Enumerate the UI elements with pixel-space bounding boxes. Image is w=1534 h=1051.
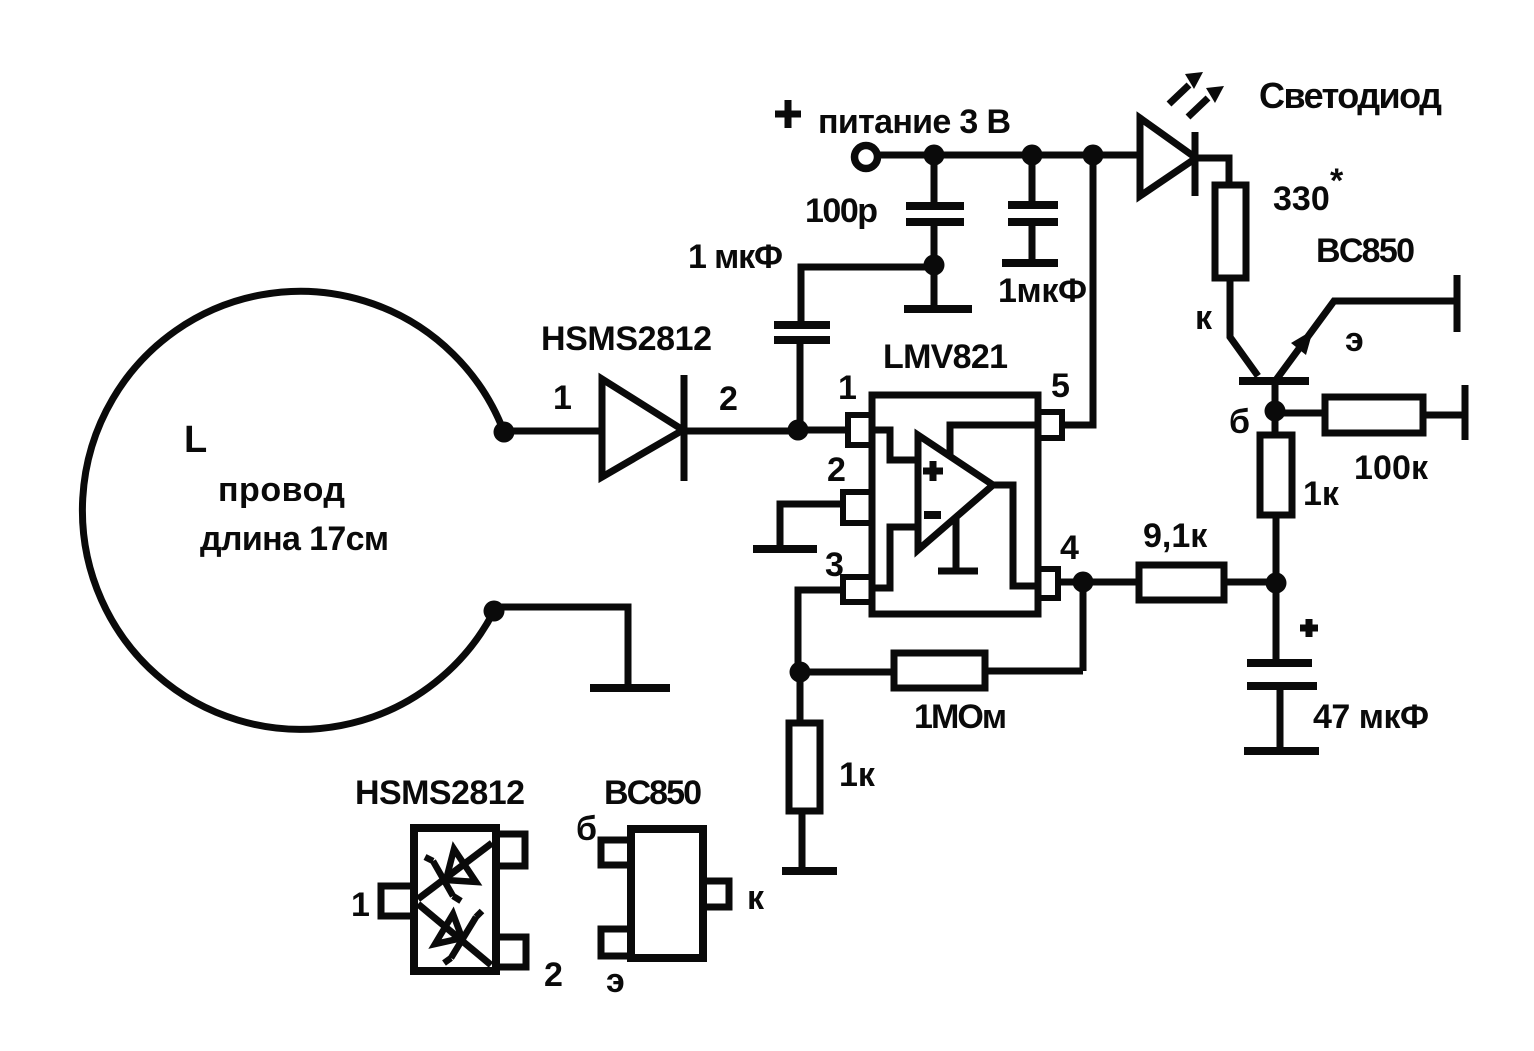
svg-text:1МОм: 1МОм xyxy=(914,698,1007,736)
pin top-right U2 xyxy=(496,834,525,866)
svg-text:к: к xyxy=(747,879,765,917)
LED D2 xyxy=(1140,118,1196,196)
svg-text:330: 330 xyxy=(1273,180,1330,218)
wire R2 to terminal xyxy=(1423,412,1465,419)
wire R6 to ground xyxy=(799,811,806,868)
wire loop bottom to ground xyxy=(494,607,628,684)
svg-text:1к: 1к xyxy=(1303,475,1340,513)
node F feedback xyxy=(790,662,811,683)
minus input mark xyxy=(924,511,941,519)
svg-text:1: 1 xyxy=(838,369,857,407)
node C1 bottom xyxy=(924,255,945,276)
wire power rail xyxy=(878,152,1140,159)
diode D1 HSMS2812 xyxy=(602,375,684,481)
pin 1 box xyxy=(848,415,872,445)
ground pin2 xyxy=(753,545,817,553)
wire base to R2 xyxy=(1275,410,1325,417)
LED arrows xyxy=(1169,72,1224,117)
resistor R1 330 xyxy=(1215,185,1246,278)
node B detector output xyxy=(788,420,809,441)
wire D1 to node B xyxy=(684,428,798,435)
ground C1 xyxy=(904,305,972,313)
svg-text:3: 3 xyxy=(825,546,844,584)
transistor Q1 BC850 xyxy=(1239,301,1455,411)
ground R6 xyxy=(782,867,837,875)
wire R5 right xyxy=(985,668,1083,675)
ground C3 xyxy=(1002,259,1058,267)
terminal bar R2 xyxy=(1462,385,1469,440)
svg-text:1мкФ: 1мкФ xyxy=(998,272,1087,310)
wire rail to pin 5 xyxy=(1062,155,1093,425)
diode D3 inside U2 xyxy=(418,843,492,901)
node E output xyxy=(1073,572,1094,593)
capacitor C3 1uF xyxy=(1008,155,1058,260)
wire base to R3 xyxy=(1272,411,1279,435)
wire pin3 internal xyxy=(872,527,918,588)
svg-text:2: 2 xyxy=(719,380,738,418)
ground C4 xyxy=(1244,747,1319,755)
ground internal xyxy=(938,517,978,571)
pin 5 box xyxy=(1038,412,1062,438)
svg-text:HSMS2812: HSMS2812 xyxy=(355,774,525,812)
wire node E down to feedback xyxy=(1080,582,1087,671)
svg-text:б: б xyxy=(1229,403,1250,441)
plus input mark xyxy=(923,461,943,481)
pin c Q2 xyxy=(703,881,729,907)
wire pin4 to R4 xyxy=(1058,579,1139,586)
svg-text:100p: 100p xyxy=(805,192,878,230)
op-amp U1 LMV821 body xyxy=(872,395,1038,614)
svg-text:100к: 100к xyxy=(1354,449,1429,487)
svg-text:BC850: BC850 xyxy=(604,774,702,812)
svg-text:1к: 1к xyxy=(839,756,876,794)
node A loop top output xyxy=(494,422,515,443)
wire R1 to Q1 collector xyxy=(1230,278,1258,376)
svg-text:5: 5 xyxy=(1051,367,1070,405)
resistor R4 9.1k xyxy=(1139,565,1224,600)
svg-text:47 мкФ: 47 мкФ xyxy=(1313,698,1429,736)
pin 2 box xyxy=(843,492,872,523)
svg-text:2: 2 xyxy=(544,956,563,994)
svg-text:питание 3 В: питание 3 В xyxy=(818,103,1011,141)
svg-text:к: к xyxy=(1195,299,1213,337)
svg-text:провод: провод xyxy=(218,471,345,509)
svg-text:9,1к: 9,1к xyxy=(1143,517,1208,555)
node base xyxy=(1265,401,1286,422)
svg-text:б: б xyxy=(576,810,597,848)
wire output internal xyxy=(993,485,1038,586)
node C loop bottom xyxy=(484,601,505,622)
capacitor C1 100p xyxy=(906,155,964,305)
pin e Q2 xyxy=(601,929,631,956)
op-amp triangle xyxy=(918,435,993,550)
power plus sign xyxy=(775,100,801,128)
resistor R2 100k xyxy=(1325,397,1423,433)
node rail pin5 branch xyxy=(1083,145,1104,166)
wire pin5 internal xyxy=(950,425,1038,455)
package U2 HSMS2812 body xyxy=(414,828,496,971)
node rail C3 xyxy=(1022,145,1043,166)
capacitor C4 47uF xyxy=(1247,583,1317,748)
svg-text:LMV821: LMV821 xyxy=(883,338,1008,376)
pin b Q2 xyxy=(601,840,631,865)
terminal bar emitter xyxy=(1454,275,1461,332)
node rail C1 xyxy=(924,145,945,166)
resistor R3 1k xyxy=(1260,435,1292,515)
svg-text:э: э xyxy=(1345,321,1364,359)
wire pin1 internal xyxy=(872,430,918,460)
wire loop to diode D1 xyxy=(504,428,602,435)
wire pin2 to ground xyxy=(780,504,843,545)
svg-text:длина 17см: длина 17см xyxy=(200,520,389,558)
svg-text:4: 4 xyxy=(1060,529,1079,567)
pin bottom-right U2 xyxy=(496,937,526,967)
power terminal xyxy=(855,146,878,169)
svg-text:*: * xyxy=(1330,162,1344,200)
pin left U2 xyxy=(381,886,414,916)
svg-text:э: э xyxy=(606,962,625,1000)
node D xyxy=(1266,573,1287,594)
wire node F to pin3 xyxy=(798,590,843,672)
svg-text:BC850: BC850 xyxy=(1316,232,1415,270)
resistor R6 1k xyxy=(789,723,820,811)
svg-text:1: 1 xyxy=(553,379,572,417)
wire R5 left xyxy=(800,669,894,676)
svg-text:1 мкФ: 1 мкФ xyxy=(688,238,783,276)
resistor R5 1MOhm xyxy=(894,653,985,688)
wire R3 to node D xyxy=(1273,515,1280,583)
svg-text:Светодиод: Светодиод xyxy=(1259,75,1442,116)
pin 3 box xyxy=(843,577,872,602)
plus mark C4 xyxy=(1300,619,1318,637)
pin 4 box xyxy=(1038,569,1058,598)
inductor L loop antenna xyxy=(82,291,504,729)
capacitor C2 1uF xyxy=(774,267,934,430)
package Q2 BC850 body xyxy=(631,829,703,958)
svg-text:2: 2 xyxy=(827,451,846,489)
wire node B to op-amp pin 1 xyxy=(798,427,848,434)
diode D4 inside U2 xyxy=(418,904,491,965)
svg-text:HSMS2812: HSMS2812 xyxy=(541,320,712,358)
svg-text:L: L xyxy=(184,419,207,461)
svg-text:1: 1 xyxy=(351,886,370,924)
wire R4 to node D xyxy=(1224,579,1276,586)
wire LED to R1 xyxy=(1196,158,1229,185)
wire node F to R6 xyxy=(797,672,804,723)
ground loop xyxy=(590,684,670,692)
